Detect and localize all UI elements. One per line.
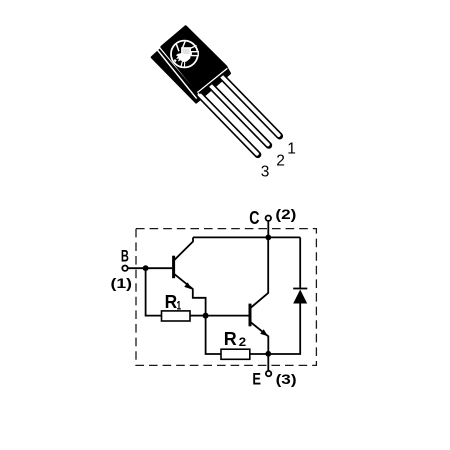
svg-text:R: R: [165, 291, 178, 312]
logo diagonal arm: [191, 46, 197, 49]
wire node drop to R2: [206, 316, 221, 354]
logo circle: [171, 41, 198, 68]
lead pin 3 (leftmost): [199, 94, 258, 155]
top rail C wire: [193, 236, 300, 238]
logo flame blob: [176, 53, 191, 62]
logo top-left strand: [176, 44, 179, 51]
logo die box: [182, 48, 191, 55]
C terminal stem: [267, 221, 269, 238]
svg-text:3: 3: [261, 164, 270, 181]
Q2 collector wire: [251, 237, 268, 307]
diode D1 cathode bar: [293, 288, 307, 290]
Q2 emitter wire: [251, 323, 268, 355]
node dot Q1 emitter / R1 / Q2 base: [203, 313, 209, 319]
package bevel white line L2 (outer side edge): [157, 50, 196, 99]
svg-text:(3): (3): [276, 371, 297, 387]
logo bottom strand 2: [184, 62, 186, 67]
resistor R1: [162, 311, 191, 321]
node dot at E: [265, 351, 271, 357]
lead pin 2 (middle): [209, 84, 269, 145]
logo top strand: [182, 41, 185, 48]
terminal B open circle: [122, 266, 127, 271]
svg-text:2: 2: [276, 153, 285, 170]
node dot at C: [265, 235, 271, 241]
Q1 emitter wire: [175, 274, 206, 313]
logo lower-left speck: [174, 59, 177, 62]
node dot at B branch: [143, 265, 149, 271]
wire R2 to E node: [250, 353, 268, 355]
svg-text:E: E: [252, 370, 261, 388]
package silhouette (body + visible side faces): [152, 27, 230, 103]
wire B drop to R1: [146, 268, 162, 315]
wire B to junction: [128, 267, 146, 269]
svg-text:2: 2: [239, 337, 246, 349]
package front face: [162, 27, 226, 91]
lead pin 1 (rightmost): [219, 74, 279, 136]
logo tab: [191, 52, 198, 56]
transistor Q2 base bar: [249, 304, 252, 327]
svg-text:R: R: [224, 328, 237, 349]
package bevel white line L1 (face outline): [160, 48, 227, 92]
svg-text:(2): (2): [275, 206, 296, 222]
Q1 emitter arrow: [184, 282, 192, 289]
svg-text:B: B: [121, 248, 129, 266]
Q2 emitter arrow: [260, 329, 268, 336]
svg-text:(1): (1): [111, 275, 133, 291]
svg-text:1: 1: [177, 300, 182, 312]
wire R1 to node: [190, 315, 206, 317]
wire junction to Q1 base: [146, 267, 173, 269]
terminal E open circle: [266, 371, 271, 376]
Q1 collector wire: [175, 237, 194, 259]
svg-text:C: C: [249, 207, 259, 228]
diode D1 triangle: [293, 290, 307, 304]
E terminal stem: [267, 354, 269, 371]
logo bottom strand 1: [181, 62, 182, 67]
package bottom edge strip over lead roots: [199, 70, 228, 94]
bottom rail to diode: [268, 304, 300, 355]
resistor R2: [221, 349, 250, 359]
diode top wire: [299, 237, 301, 288]
svg-text:1: 1: [287, 140, 296, 157]
transistor Q1 base bar: [172, 256, 175, 279]
dashed package outline box: [136, 229, 316, 366]
wire node to Q2 base: [206, 315, 249, 317]
terminal C open circle: [266, 216, 271, 221]
